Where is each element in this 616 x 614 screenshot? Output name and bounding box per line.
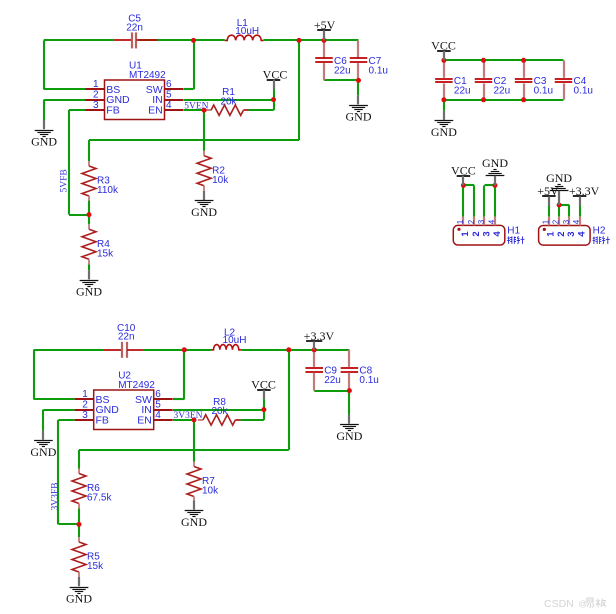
wire top rail 5V right segment <box>264 39 359 41</box>
junction 5VEN node <box>202 108 207 113</box>
wire 3V3EN junction down to R7 <box>193 420 195 462</box>
capacitor C8 0.1u <box>341 350 379 391</box>
resistor R1 20k <box>206 87 248 115</box>
svg-text:FB: FB <box>96 415 109 427</box>
svg-text:GND: GND <box>181 515 207 529</box>
svg-text:@: @ <box>579 599 588 609</box>
wire 3V3 feedback vertical <box>288 350 290 450</box>
wire top rail 5V mid segment <box>139 39 225 41</box>
svg-text:0.1u: 0.1u <box>359 375 378 386</box>
ground at U1 pin 2 <box>31 120 57 148</box>
svg-text:4: 4 <box>166 100 172 111</box>
wire C8 ground drop <box>348 391 350 415</box>
junction C7 ground node <box>356 78 361 83</box>
capacitor C4 0.1u <box>555 60 593 100</box>
wire H2 pin1 from +5V <box>548 206 550 217</box>
wire bottom rail 3V3 left segment <box>34 349 104 351</box>
wire C9 bottom rail <box>314 390 349 392</box>
wire GND pin 2 to ground <box>44 100 86 120</box>
wire EN pin 4 net 5VEN <box>184 109 204 111</box>
svg-text:GND: GND <box>431 125 457 139</box>
junction H2 GND node <box>557 203 562 208</box>
wire 3V3 feedback horizontal to R6 <box>79 450 289 469</box>
inductor L2 10uH <box>211 328 246 350</box>
wire bottom rail 3V3 mid segment <box>144 349 211 351</box>
junction 3V3 feedback tap <box>286 347 291 352</box>
svg-text:4: 4 <box>572 219 581 224</box>
svg-text:FB: FB <box>106 105 119 117</box>
svg-text:10k: 10k <box>212 175 229 186</box>
ground below R2 <box>191 191 217 219</box>
junction R3-R4 divider tap <box>87 212 92 217</box>
wire cap bank bottom rail <box>444 99 564 101</box>
wire 5V feedback horizontal to R3 <box>89 140 299 161</box>
power port VCC at cap bank <box>431 39 456 61</box>
op-amp U1 MT2492 <box>86 60 184 119</box>
svg-text:5VFB: 5VFB <box>60 169 70 192</box>
svg-text:3: 3 <box>481 231 492 236</box>
connector H1 pin header <box>453 217 524 245</box>
svg-text:GND: GND <box>66 591 92 605</box>
capacitor C6 22u <box>315 40 350 80</box>
svg-text:GND: GND <box>30 445 56 459</box>
resistor R3 110k <box>82 161 119 201</box>
op-amp U2 MT2492 <box>75 370 173 429</box>
wire R4 bottom lead <box>88 264 90 270</box>
wire U2 IN pin 5 to VCC <box>173 409 264 411</box>
junction C3 bottom <box>521 97 526 102</box>
wire C1 ground drop <box>443 100 445 111</box>
svg-text:20k: 20k <box>211 406 228 417</box>
svg-text:3V3EN: 3V3EN <box>173 411 202 421</box>
resistor R5 15k <box>72 537 104 577</box>
junction H1 GND node <box>493 183 498 188</box>
ground at H2 pins 2-3 <box>546 171 572 205</box>
wire 5V feedback vertical <box>298 40 300 140</box>
resistor R8 20k <box>198 397 240 425</box>
wire H1 GND to pin3 <box>484 185 495 217</box>
ground below C8 <box>336 415 362 443</box>
junction SW node <box>191 38 196 43</box>
junction VCC-IN node U2 <box>261 407 266 412</box>
wire BS pin 1 horizontal <box>44 88 86 90</box>
svg-text:0.1u: 0.1u <box>534 86 553 97</box>
wire R3 bottom to junction <box>88 200 90 224</box>
svg-text:22n: 22n <box>126 22 143 33</box>
wire H1 pin1 from VCC <box>462 185 464 216</box>
power port VCC at H1 <box>451 164 476 186</box>
wire U2 BS bootstrap vertical <box>33 350 35 400</box>
resistor R4 15k <box>82 224 114 264</box>
svg-text:110k: 110k <box>97 185 119 196</box>
svg-text:1: 1 <box>456 219 465 224</box>
wire U2 GND pin 2 to ground <box>43 410 75 431</box>
power port VCC at U1 <box>263 67 288 89</box>
power port VCC at U2 <box>251 378 276 399</box>
svg-text:67.5k: 67.5k <box>87 493 112 504</box>
wire FB pin 3 net 5VFB <box>69 110 89 215</box>
svg-text:2: 2 <box>552 219 561 224</box>
svg-text:22n: 22n <box>118 332 135 343</box>
svg-text:20k: 20k <box>220 96 237 107</box>
wire U2 BS pin 1 horizontal <box>34 398 75 400</box>
svg-text:GND: GND <box>546 171 572 185</box>
power port +3.3V at H2 <box>569 184 600 206</box>
resistor R2 10k <box>197 151 229 191</box>
wire C6 bottom rail <box>324 79 359 81</box>
svg-text:MT2492: MT2492 <box>129 70 166 81</box>
wire H1 pin4 from GND <box>494 185 496 216</box>
wire H2 GND to pin3 <box>559 205 569 217</box>
connector H2 pin header <box>539 217 610 245</box>
svg-text:GND: GND <box>336 429 362 443</box>
junction +5V output <box>322 38 327 43</box>
wire IN pin 5 to VCC <box>184 99 274 101</box>
capacitor C1 22u <box>435 60 470 100</box>
svg-text:0.1u: 0.1u <box>369 65 388 76</box>
junction U2 SW node <box>182 347 187 352</box>
wire C7 ground drop <box>357 80 359 95</box>
ground below C7 <box>346 95 372 123</box>
capacitor C7 0.1u <box>350 40 388 80</box>
junction 3V3EN node <box>192 417 197 422</box>
wire BS bootstrap vertical <box>43 40 45 89</box>
ground below R5 <box>66 577 92 605</box>
wire U2 EN pin 4 net 3V3EN <box>173 419 194 421</box>
wire EN junction down to R2 <box>203 110 205 151</box>
inductor L1 10uH <box>225 18 264 40</box>
svg-text:EN: EN <box>148 105 163 117</box>
power port +3.3V <box>304 329 335 350</box>
wire VCC drop to IN <box>273 90 275 100</box>
svg-text:10k: 10k <box>202 486 219 497</box>
svg-text:4: 4 <box>155 410 161 421</box>
capacitor C10 22n <box>104 323 144 358</box>
wire R6 bottom to junction <box>78 509 80 525</box>
junction C2 bottom <box>481 97 486 102</box>
junction C1 top <box>441 58 446 63</box>
svg-text:1: 1 <box>542 219 551 224</box>
wire R1 right to VCC node <box>248 100 274 111</box>
svg-text:GND: GND <box>31 134 57 148</box>
svg-text:3: 3 <box>93 100 99 111</box>
junction H1 VCC node <box>461 183 466 188</box>
svg-text:22u: 22u <box>334 65 351 76</box>
junction C3 top <box>521 58 526 63</box>
svg-text:22u: 22u <box>494 86 511 97</box>
ground below R4 <box>76 270 102 298</box>
svg-text:CSDN: CSDN <box>544 598 574 610</box>
junction R6-R5 divider tap <box>77 522 82 527</box>
capacitor C2 22u <box>475 60 510 100</box>
svg-text:4: 4 <box>488 219 497 224</box>
wire bottom rail 3V3 right segment <box>241 349 349 351</box>
svg-text:5VEN: 5VEN <box>184 102 208 112</box>
wire H2 pin4 from +3.3V <box>579 206 581 217</box>
capacitor C5 22n <box>114 14 158 49</box>
ground at U2 pin 2 <box>30 431 56 459</box>
capacitor C9 22u <box>305 350 340 391</box>
junction VCC-IN node <box>271 97 276 102</box>
svg-text:GND: GND <box>191 205 217 219</box>
svg-text:15k: 15k <box>97 248 114 259</box>
power port +5V at H2 <box>537 184 559 206</box>
wire R8 right to VCC node <box>240 410 264 420</box>
wire VCC cap bank top rail <box>444 59 564 61</box>
svg-text:GND: GND <box>346 110 372 124</box>
ground at H1 pins 3-4 <box>482 156 508 185</box>
svg-text:10uH: 10uH <box>223 335 247 346</box>
svg-text:10uH: 10uH <box>235 26 259 37</box>
wire VCC drop to U2 IN <box>263 399 265 410</box>
svg-text:GND: GND <box>76 285 102 299</box>
wire SW pin 6 to top rail <box>184 40 194 89</box>
junction 5V feedback tap <box>297 38 302 43</box>
junction C2 top <box>481 58 486 63</box>
svg-text:3: 3 <box>477 219 486 224</box>
junction +3.3V output <box>312 347 317 352</box>
wire R5 top lead <box>78 524 80 537</box>
wire H2 pin2 from GND <box>558 205 560 217</box>
svg-text:4: 4 <box>492 231 503 237</box>
svg-text:4: 4 <box>576 231 587 237</box>
capacitor C3 0.1u <box>515 60 553 100</box>
power port +5V <box>314 18 336 41</box>
wire U2 FB pin 3 net 3V3FB <box>58 420 79 525</box>
svg-text:15k: 15k <box>87 561 104 572</box>
svg-text:EN: EN <box>137 415 152 427</box>
junction C8 ground node <box>347 388 352 393</box>
svg-text:3: 3 <box>562 219 571 224</box>
resistor R6 67.5k <box>72 469 112 509</box>
svg-text:H2: H2 <box>593 226 606 237</box>
wire H1 VCC to pin2 <box>463 185 474 217</box>
svg-text:3V3FB: 3V3FB <box>51 483 61 511</box>
svg-text:22u: 22u <box>454 86 471 97</box>
ground below C1 <box>431 111 457 139</box>
watermark CSDN <box>544 598 606 610</box>
wire U2 SW pin 6 to rail <box>173 350 184 400</box>
svg-text:3: 3 <box>82 410 88 421</box>
svg-text:0.1u: 0.1u <box>574 86 593 97</box>
svg-text:MT2492: MT2492 <box>118 380 155 391</box>
svg-text:H1: H1 <box>507 226 520 237</box>
svg-text:1: 1 <box>460 231 471 237</box>
junction C1 bottom <box>441 97 446 102</box>
ground below R7 <box>181 501 207 529</box>
resistor R7 10k <box>187 462 219 502</box>
svg-text:22u: 22u <box>324 375 341 386</box>
svg-text:GND: GND <box>482 156 508 170</box>
wire top rail 5V left segment <box>44 39 114 41</box>
svg-text:2: 2 <box>467 219 476 224</box>
